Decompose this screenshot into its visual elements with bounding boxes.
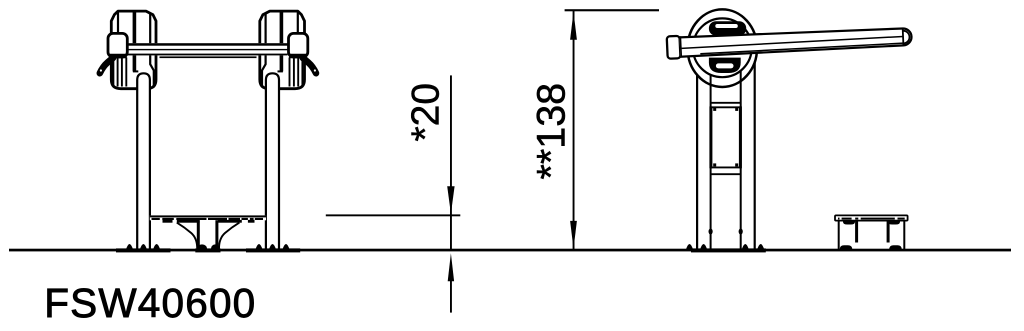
- panel bottom joint line: [711, 173, 741, 175]
- down arrow at seat level: [447, 186, 454, 214]
- dimension line **138: [573, 11, 575, 249]
- svg-text:*20: *20: [405, 83, 448, 142]
- bench legs: [855, 221, 858, 243]
- bar end cap (left): [667, 36, 681, 59]
- panel (side): [710, 106, 741, 168]
- pedestal feet: [197, 244, 208, 250]
- down arrow at ground: [570, 221, 577, 249]
- inner cap arc (right): [903, 30, 910, 43]
- dimension line *20: [450, 75, 452, 249]
- left post (front): [137, 73, 150, 250]
- right handle cap and shackle (mirror): [289, 33, 317, 73]
- ground line: [9, 249, 1011, 252]
- svg-text:FSW40600: FSW40600: [44, 280, 256, 326]
- bar body: [680, 27, 912, 57]
- bolts on side post: [709, 229, 713, 235]
- cap junction line: [679, 36, 682, 57]
- panel top joint line: [711, 102, 741, 104]
- bottom grip handle: [709, 58, 741, 73]
- left tire pad: [111, 11, 156, 89]
- post outer lines (side): [697, 62, 755, 250]
- inner bottom line: [700, 43, 903, 54]
- wheel outer rim (side): [688, 9, 757, 87]
- wheel inner rim: [693, 18, 752, 77]
- anchor mounds side post: [686, 244, 764, 249]
- lower rail (front view): [160, 56, 257, 58]
- long bar (side view): [667, 26, 912, 59]
- ground footing under side post: [691, 248, 766, 252]
- up arrow below ground: [448, 253, 454, 281]
- seat pedestal: [177, 220, 240, 249]
- anchor mounds right post: [256, 244, 290, 249]
- top grip handle: [709, 21, 746, 36]
- ground footing under pedestal: [195, 248, 220, 252]
- seat level extension line: [326, 214, 461, 216]
- bench feet: [840, 245, 853, 249]
- right tire pad (mirror): [260, 11, 305, 89]
- ground footing under left post: [116, 248, 171, 252]
- up arrow at top: [570, 12, 577, 40]
- clips under bench top: [843, 221, 855, 225]
- anchor mounds left post: [126, 244, 160, 249]
- right post (front): [266, 73, 279, 250]
- seat (front view): [150, 215, 266, 222]
- ground footing under right post: [246, 248, 300, 252]
- svg-text:**138: **138: [530, 83, 574, 180]
- crossbar (front view): [127, 43, 288, 58]
- bench seat (side view): [835, 215, 908, 249]
- shackle hook: [100, 58, 113, 73]
- left handle cap and shackle: [100, 33, 128, 73]
- mid highlight line: [681, 36, 903, 48]
- top extension line: [565, 9, 659, 11]
